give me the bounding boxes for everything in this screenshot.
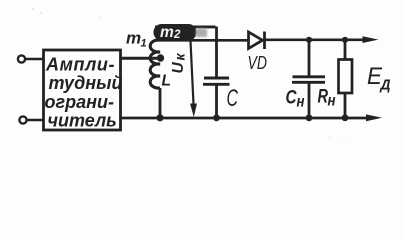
svg-text:L: L (162, 73, 171, 90)
svg-text:к: к (172, 53, 188, 61)
svg-text:1: 1 (141, 38, 147, 50)
svg-text:тудный: тудный (49, 73, 123, 93)
junction tap m1 (157, 54, 164, 61)
svg-text:U: U (170, 62, 187, 74)
label Rn (318, 87, 336, 110)
label m2 tap blob (154, 24, 216, 41)
svg-text:VD: VD (248, 53, 268, 73)
input terminal top (18, 55, 25, 62)
bottom rail (121, 117, 369, 120)
wire diode to output (top wire) (263, 38, 364, 41)
capacitor Cn (292, 40, 325, 118)
wire m2 tap to diode (155, 39, 248, 42)
junction dot Cn top (306, 37, 312, 43)
svg-text:н: н (297, 93, 305, 110)
wire coil bottom (159, 88, 162, 119)
wire input bottom (27, 119, 44, 122)
wire limiter to coil tap m1 (121, 57, 162, 60)
paper speckles (32, 8, 344, 143)
label Uk (rotated) (170, 53, 188, 74)
junction dot C bottom (213, 114, 220, 121)
voltage arrow Uk (190, 41, 197, 117)
junction dot coil bottom (156, 114, 163, 121)
label Cn (286, 87, 305, 110)
wire coil top to capacitor C (vertical) (215, 27, 218, 78)
diode VD (249, 32, 265, 50)
output arrow top (363, 36, 379, 43)
svg-text:читель: читель (48, 111, 117, 131)
svg-text:н: н (328, 93, 336, 110)
svg-text:C: C (286, 87, 297, 108)
junction dot Rn bottom (342, 114, 349, 121)
input terminal bottom (19, 116, 26, 123)
inductor L coil (150, 40, 160, 88)
junction dot Cn bottom (306, 114, 313, 121)
wire input top (25, 58, 43, 61)
svg-text:ограни-: ограни- (45, 92, 114, 112)
svg-text:C: C (227, 85, 239, 112)
capacitor C (203, 78, 230, 119)
amplitude limiter block (44, 50, 123, 131)
label m1 (126, 29, 147, 50)
svg-text:m: m (126, 29, 141, 48)
junction dot Rn top (342, 37, 348, 43)
svg-text:Ампли-: Ампли- (45, 55, 115, 75)
svg-text:m: m (160, 24, 174, 41)
resistor Rn (339, 40, 353, 118)
label Ed (367, 63, 391, 93)
svg-text:Д: Д (379, 77, 391, 93)
output arrow bottom (366, 114, 382, 121)
